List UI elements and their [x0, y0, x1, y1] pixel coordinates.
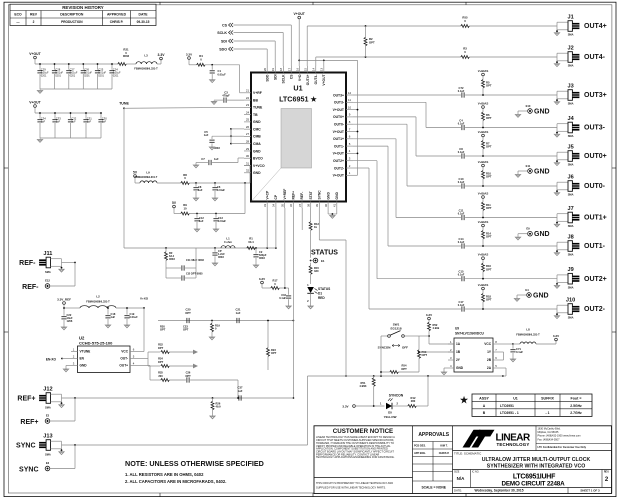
resistor R14 OPT [482, 227, 492, 247]
ground (C1) [210, 79, 215, 83]
capacitor C30 1uF [98, 112, 107, 138]
svg-text:OPT: OPT [271, 351, 277, 355]
svg-text:41: 41 [333, 204, 337, 208]
svg-text:TITLE: SCHEMATIC: TITLE: SCHEMATIC [454, 452, 482, 456]
capacitor C71 0.1uF [510, 344, 523, 358]
svg-text:13: 13 [320, 68, 324, 72]
svg-text:3.3V: 3.3V [186, 52, 192, 56]
svg-text:2B: 2B [487, 358, 492, 362]
svg-text:E1: E1 [321, 259, 325, 263]
svg-text:V+OUT: V+OUT [333, 108, 345, 112]
svg-text:SMA: SMA [568, 163, 574, 167]
power terminal 3.3V (L8) [553, 334, 559, 344]
svg-text:OPT: OPT [183, 328, 189, 332]
svg-text:1uF: 1uF [111, 315, 116, 319]
resistor R17 0 [262, 279, 289, 290]
U1 pin 27 CMB [244, 132, 261, 139]
wire SDO [234, 49, 268, 66]
svg-text:V+RF: V+RF [253, 91, 262, 95]
svg-text:REV: REV [30, 13, 38, 17]
svg-text:SMA: SMA [568, 316, 574, 320]
U1 pin 39 SYNC [315, 190, 321, 208]
svg-text:BVCO: BVCO [253, 157, 263, 161]
svg-text:OUT0+: OUT0+ [333, 115, 344, 119]
power terminal V+BIAS (J3 row) [478, 69, 489, 76]
svg-text:SMA: SMA [45, 270, 51, 274]
svg-text:LTC6951IUHF: LTC6951IUHF [513, 474, 556, 481]
svg-text:1uF: 1uF [102, 120, 107, 123]
svg-text:Wednesday, September 30, 2015: Wednesday, September 30, 2015 [475, 489, 524, 493]
U1 pin 21 V+RF [244, 89, 262, 96]
wire OUT1+ net [353, 139, 461, 218]
capacitor C11f 68nF 0603 [166, 248, 204, 271]
svg-text:0603: 0603 [123, 54, 130, 58]
svg-text:STAT: STAT [309, 191, 313, 199]
svg-text:V+CP: V+CP [265, 190, 269, 200]
ground (R26) [210, 415, 215, 419]
svg-text:1630 McCarthy Blvd.: 1630 McCarthy Blvd. [538, 427, 562, 430]
svg-text:FBMH1608HL331-T: FBMH1608HL331-T [516, 333, 540, 337]
test point E3 SYNC [19, 445, 75, 473]
wire OUT0- net [353, 124, 461, 186]
svg-text:V+BIAS: V+BIAS [478, 220, 489, 224]
svg-text:J8: J8 [567, 235, 573, 241]
svg-text:SCLK: SCLK [217, 31, 227, 35]
svg-text:V+OUT: V+OUT [322, 75, 326, 86]
svg-text:SYNC: SYNC [318, 190, 322, 200]
svg-text:C37: C37 [238, 386, 243, 390]
svg-text:2A: 2A [487, 366, 492, 370]
svg-text:R17: R17 [273, 279, 278, 283]
svg-text:SCALE = NONE: SCALE = NONE [421, 486, 446, 490]
svg-text:V+BIAS: V+BIAS [478, 69, 489, 73]
svg-text:CMB: CMB [253, 135, 261, 139]
svg-text:V+BIAS: V+BIAS [478, 101, 489, 105]
svg-text:PCB DES.: PCB DES. [414, 444, 426, 447]
svg-text:23: 23 [246, 103, 250, 107]
wire R52 to U9 [419, 335, 454, 344]
svg-text:OPT: OPT [486, 267, 492, 271]
svg-text:OUT1-: OUT1- [334, 144, 344, 148]
U1 pin 28 CMA [244, 139, 261, 146]
svg-text:E3: E3 [46, 461, 50, 465]
svg-text:TB: TB [253, 113, 258, 117]
svg-text:FBMH1608HL331-T: FBMH1608HL331-T [86, 300, 110, 304]
svg-text:V+XO: V+XO [140, 297, 149, 301]
svg-text:OPT: OPT [486, 84, 492, 88]
svg-text:J11: J11 [43, 251, 52, 257]
wire OUT1- net [353, 146, 461, 246]
svg-text:J4: J4 [567, 116, 574, 122]
capacitor C21 1uF [236, 308, 241, 324]
svg-text:1uF: 1uF [56, 120, 61, 123]
capacitor C3 470pF [214, 90, 244, 102]
resistor R55 0 [461, 16, 469, 28]
svg-text:J3: J3 [567, 84, 573, 90]
capacitor C32 1uF [68, 112, 77, 138]
capacitor CI2 OPT 0805 [166, 268, 203, 281]
wire OUT4+ net [307, 25, 557, 66]
svg-text:TUNE: TUNE [253, 106, 263, 110]
svg-text:J6: J6 [567, 175, 573, 181]
power terminal V+BIAS (J4 row) [478, 101, 489, 108]
svg-text:E2: E2 [46, 414, 50, 418]
U1 pin 7 V+OUT [333, 127, 353, 134]
svg-text:OUT2-: OUT2- [584, 306, 606, 313]
svg-text:APPROVALS: APPROVALS [418, 432, 449, 438]
svg-text:OUT3+: OUT3+ [333, 93, 344, 97]
test point E12 REF- [22, 263, 75, 291]
wire V+CP stub [266, 208, 268, 248]
svg-text:V+OUT: V+OUT [293, 12, 305, 16]
resistor R9 10 [174, 203, 245, 215]
U1 pin 10 V+OUT [333, 105, 353, 112]
svg-text:LTC Confidential-For Customer: LTC Confidential-For Customer Use Only [538, 446, 587, 449]
svg-text:1k: 1k [314, 225, 317, 229]
wire bypass bank 1 top bus [35, 64, 118, 89]
capacitor C8 0.1uF [458, 147, 557, 159]
svg-text:SYNCON: SYNCON [378, 346, 391, 350]
U1 pin 32 GND [244, 169, 261, 176]
svg-text:OUT-: OUT- [120, 357, 128, 361]
U1 pin 30 BVCO [244, 154, 263, 161]
capacitor C14 0.1uF [458, 237, 557, 249]
svg-text:EN-XO: EN-XO [46, 358, 57, 362]
wire OUT3- net [353, 102, 461, 127]
ground (bypass bank 2) [37, 139, 42, 143]
connector J5 OUT0+ [554, 145, 606, 167]
capacitor C6 0.01uF [212, 183, 225, 197]
svg-text:29: 29 [246, 147, 250, 151]
svg-text:OUT4+: OUT4+ [584, 23, 607, 30]
U1 pin 8 OUT0- [334, 120, 353, 127]
ground (U1 pins 40 41) [330, 215, 335, 219]
svg-text:CHRIS P.: CHRIS P. [110, 20, 124, 24]
node SCLK [217, 31, 233, 35]
capacitor C5 1uF 0603 [204, 128, 244, 150]
svg-text:APPROVED: APPROVED [107, 13, 127, 17]
U1 pin 16 V+D [295, 66, 301, 81]
svg-text:REF+: REF+ [17, 395, 35, 402]
svg-text:J10: J10 [566, 298, 575, 304]
power terminal 3.3V (D5) [342, 405, 355, 409]
svg-text:J2: J2 [567, 46, 573, 52]
svg-text:OPT: OPT [401, 367, 407, 371]
connector J2 OUT4- [554, 46, 605, 68]
power terminal V+OUT (V+D) [293, 12, 305, 19]
svg-text:3.3V: 3.3V [426, 313, 432, 317]
power terminal V+BIAS (J6 row) [478, 160, 489, 167]
U1 pin 20 SDO [263, 66, 269, 82]
assembly options table [460, 394, 592, 416]
U1 pin 4 V+OUT [333, 149, 353, 156]
svg-text:V+D: V+D [298, 74, 302, 81]
svg-text:CHRIS P.: CHRIS P. [439, 452, 450, 455]
svg-text:SMA: SMA [568, 134, 574, 138]
U1 pin 6 OUT1+ [333, 135, 353, 142]
wire U2 OUT- [137, 352, 161, 366]
svg-text:SDO: SDO [265, 74, 269, 82]
U1 pin 37 REF- [298, 192, 304, 208]
svg-text:E11: E11 [526, 164, 531, 168]
svg-text:3.3V: 3.3V [342, 405, 348, 409]
power terminal V+BIAS (J7 row) [478, 191, 489, 198]
svg-text:0.1uF: 0.1uF [458, 241, 465, 244]
ground (C13) [213, 228, 218, 232]
svg-text:C21: C21 [236, 308, 241, 312]
capacitor C25 0.01uF 0201 [95, 63, 107, 89]
power terminal V+BIAS (J5 row) [478, 130, 489, 137]
connector J8 OUT1- [554, 235, 605, 257]
svg-text:OPT: OPT [185, 374, 191, 378]
svg-text:E9: E9 [526, 227, 530, 231]
ground (D1) [308, 305, 313, 309]
svg-text:38: 38 [307, 204, 311, 208]
svg-text:OPT: OPT [422, 353, 428, 357]
svg-text:34: 34 [272, 204, 276, 208]
svg-text:0603: 0603 [169, 257, 175, 261]
svg-text:REF+: REF+ [20, 419, 38, 426]
resistor R54 OPT [380, 364, 419, 374]
svg-text:0.01uF: 0.01uF [130, 315, 139, 319]
svg-text:OPT: OPT [486, 206, 492, 210]
svg-text:OUT0-: OUT0- [334, 123, 344, 127]
svg-text:0.1uF: 0.1uF [458, 274, 465, 277]
resistor R4 0 [197, 54, 206, 67]
capacitor C33 1uF [52, 112, 61, 138]
wire SYNCON bus [308, 375, 504, 377]
svg-text:0 ohm: 0 ohm [224, 240, 233, 244]
ground (U9 GND) [441, 368, 448, 375]
svg-text:3.3V: 3.3V [259, 277, 265, 281]
wire REF- stub [301, 208, 303, 230]
capacitor C17 0.1uF [458, 300, 557, 312]
svg-text:OPT: OPT [486, 145, 492, 149]
wire U2 OUT+ [137, 366, 161, 381]
U1 pin 33 V+CP [263, 190, 269, 208]
svg-text:3.3V: 3.3V [553, 334, 559, 338]
svg-text:0.01uF: 0.01uF [217, 189, 225, 192]
wire REF+ net [62, 397, 294, 399]
connector J4 OUT3- [554, 116, 605, 138]
svg-text:1206: 1206 [67, 319, 73, 323]
svg-text:E12: E12 [45, 279, 50, 283]
power terminal 3.3V (R52) [426, 313, 432, 320]
svg-text:1A: 1A [456, 342, 461, 346]
svg-text:0201: 0201 [55, 74, 61, 77]
ground (C19) [124, 324, 129, 328]
U1 pin 11 OUT3- [334, 98, 353, 105]
wire OUT3+ net [353, 94, 461, 96]
svg-text:3.3V_REF: 3.3V_REF [57, 297, 71, 301]
svg-text:STATUS: STATUS [318, 287, 330, 291]
svg-text:REVISION HISTORY: REVISION HISTORY [62, 5, 104, 10]
ground (R19) [209, 336, 214, 340]
svg-text:V+REF: V+REF [283, 189, 287, 200]
U1 pin 1 V+OUT [333, 171, 353, 178]
switch SW1 EG1218 [378, 323, 419, 350]
svg-text:0.01uF: 0.01uF [218, 73, 227, 77]
svg-text:15: 15 [303, 68, 307, 72]
svg-text:GND: GND [80, 364, 88, 368]
svg-text:ULTRALOW JITTER MULTI-OUTPUT C: ULTRALOW JITTER MULTI-OUTPUT CLOCK [482, 457, 591, 463]
svg-text:IC NO.: IC NO. [472, 471, 480, 474]
svg-text:REF-: REF- [19, 260, 36, 267]
power terminal V+OUT (bypass bank 1) [29, 52, 41, 64]
svg-text:24: 24 [246, 110, 250, 114]
svg-text:REV.: REV. [604, 471, 610, 474]
svg-text:63.4: 63.4 [248, 240, 254, 244]
wire V+RF feed [240, 65, 244, 93]
U1 pin 40 GND [324, 192, 330, 208]
svg-text:21: 21 [246, 89, 250, 93]
svg-text:OUT3-: OUT3- [584, 125, 606, 132]
svg-text:TUNE: TUNE [119, 102, 129, 106]
svg-text:OUT1-: OUT1- [584, 243, 606, 250]
svg-text:CCHD-575-25-100: CCHD-575-25-100 [79, 340, 113, 345]
svg-text:31: 31 [246, 161, 250, 165]
svg-text:V+OUT: V+OUT [333, 152, 345, 156]
inductor L3 FBMH1608HL331-T [126, 54, 158, 71]
svg-text:V+VCO: V+VCO [253, 164, 265, 168]
capacitor C13 0.01uF [213, 214, 226, 229]
svg-text:10: 10 [348, 105, 352, 109]
svg-text:J1: J1 [567, 15, 573, 21]
svg-text:EG1218: EG1218 [390, 327, 401, 331]
U1 pin 24 TB [244, 110, 258, 117]
capacitor C12 1uF [194, 214, 204, 229]
svg-text:C11 68nF 0603: C11 68nF 0603 [186, 258, 204, 262]
connector J12 REF+ [17, 387, 64, 410]
ground (C16) [286, 305, 291, 309]
svg-text:VTUNE: VTUNE [80, 350, 91, 354]
svg-text:L9: L9 [146, 171, 150, 175]
svg-text:28: 28 [246, 139, 250, 143]
svg-text:V+OUT: V+OUT [333, 130, 345, 134]
IC U2 CCHD-575-25-100 [71, 336, 137, 373]
IC U1 LTC6951 [251, 73, 346, 202]
test point E9 GND [515, 227, 549, 240]
svg-text:2. ALL CAPACITORS ARE IN MICRO: 2. ALL CAPACITORS ARE IN MICROFARADS, 04… [125, 479, 226, 484]
svg-text:DATE: DATE [139, 13, 149, 17]
ground (C3) [211, 101, 216, 105]
svg-text:19: 19 [271, 68, 275, 72]
svg-text:OPT: OPT [158, 360, 164, 364]
test point E2 REF+ [20, 398, 75, 426]
wire OUT4- net [316, 56, 557, 66]
wire V+D [298, 19, 300, 66]
svg-text:R1: R1 [249, 237, 253, 241]
svg-text:FBMH1608HL331-T: FBMH1608HL331-T [134, 67, 158, 71]
svg-text:0603: 0603 [218, 255, 224, 259]
svg-text:E10: E10 [526, 104, 531, 108]
svg-text:1uF: 1uF [198, 189, 203, 192]
svg-text:0.1uF: 0.1uF [516, 350, 523, 354]
U1 pin 19 SDI [271, 66, 277, 80]
inductor L9 FBMH1608HL301-T [135, 171, 158, 184]
connector J9 OUT2+ [554, 267, 606, 289]
resistor R52 4.99k [428, 320, 440, 344]
wire U9 VCC [499, 343, 514, 345]
capacitor C18 1uF [105, 307, 115, 324]
ground (bypass bank 1) [37, 90, 42, 94]
svg-text:J5: J5 [567, 145, 573, 151]
power terminal V+OUT (bypass bank 2) [29, 100, 41, 113]
svg-text:U1: U1 [513, 396, 518, 400]
ground (C71) [510, 358, 515, 362]
connector J10 OUT2- [554, 298, 605, 320]
svg-text:TECHNOLOGY APPLICATIONS ENGINE: TECHNOLOGY APPLICATIONS ENGINEERING FOR … [316, 455, 395, 459]
svg-text:0201: 0201 [84, 74, 90, 77]
wire OUT2- net [353, 168, 461, 309]
svg-text:0.1uF: 0.1uF [458, 181, 465, 184]
svg-text:SN74LVC2G00DCU: SN74LVC2G00DCU [455, 331, 485, 335]
svg-text:ECO: ECO [14, 13, 22, 17]
svg-text:L1: L1 [226, 237, 230, 241]
svg-text:C7: C7 [201, 157, 205, 161]
svg-text:OUT0-: OUT0- [584, 183, 606, 190]
U1 pin 9 OUT0+ [333, 113, 353, 120]
svg-text:DEMO CIRCUIT 2248A: DEMO CIRCUIT 2248A [502, 481, 566, 488]
svg-text:37: 37 [298, 204, 302, 208]
U1 pin 34 CP [272, 194, 278, 208]
svg-text:SMA: SMA [568, 193, 574, 197]
svg-text:L3: L3 [144, 54, 148, 58]
svg-text:OUT0+: OUT0+ [584, 153, 607, 160]
connector J1 OUT4+ [554, 15, 606, 37]
test point E11 GND [515, 164, 549, 177]
ground (C22) [61, 326, 66, 330]
svg-text:OPT: OPT [486, 175, 492, 179]
svg-text:V+BIAS: V+BIAS [478, 283, 489, 287]
capacitor C2 620pF 0603 [253, 248, 267, 264]
svg-text:Fout =: Fout = [571, 396, 582, 400]
svg-text:SYNC: SYNC [16, 442, 35, 449]
capacitor C29 0.01uF 0201 [37, 63, 49, 89]
svg-text:SUPPLIED FOR USE WITH LINEAR T: SUPPLIED FOR USE WITH LINEAR TECHNOLOGY … [316, 486, 386, 490]
address block [536, 426, 612, 451]
svg-text:J7: J7 [567, 206, 573, 212]
svg-text:U1: U1 [293, 84, 302, 93]
wire R4 node [205, 64, 240, 66]
svg-text:36: 36 [289, 204, 293, 208]
svg-text:NOTE: UNLESS OTHERWISE SPECIFI: NOTE: UNLESS OTHERWISE SPECIFIED [125, 459, 264, 468]
connector J6 OUT0- [554, 175, 605, 197]
resistor R25 200 [158, 371, 186, 382]
wire SYNC net [319, 208, 347, 377]
svg-text:0603: 0603 [259, 256, 265, 260]
svg-text:DATE:: DATE: [454, 489, 462, 493]
connector J7 OUT1+ [554, 206, 606, 228]
svg-text:V+BIAS: V+BIAS [478, 191, 489, 195]
svg-text:SMA: SMA [45, 453, 51, 457]
svg-text:C20: C20 [186, 308, 191, 312]
svg-text:2: 2 [33, 20, 35, 24]
LED D1 RED STATUS [307, 283, 330, 305]
wire V+OUT right rail [353, 60, 358, 175]
title fields [453, 451, 612, 494]
svg-text:SYNC: SYNC [19, 466, 38, 473]
resistor R13 1k [309, 222, 319, 258]
power terminal V+BIAS (J8 row) [478, 220, 489, 227]
wire SW1 left [380, 336, 382, 376]
capacitor C24 0.01uF 0201 [109, 63, 121, 89]
svg-text:GND: GND [533, 292, 549, 299]
svg-text:V+BIAS: V+BIAS [478, 130, 489, 134]
wire OUT2+ net [353, 161, 461, 279]
svg-text:- 1: - 1 [546, 411, 550, 415]
svg-text:GND: GND [326, 192, 330, 200]
